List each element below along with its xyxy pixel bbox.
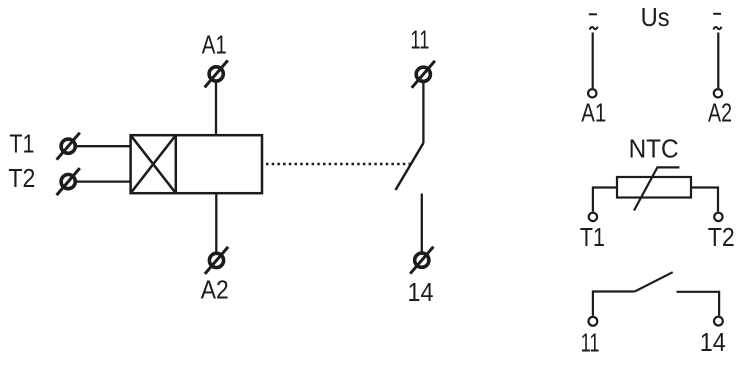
relay coil K1 [131, 135, 262, 193]
wire 14 to output contact [677, 292, 720, 316]
mechanical linkage (dotted) [266, 163, 410, 166]
AC mark over A2 [714, 27, 722, 30]
label 11 (output) [581, 327, 600, 357]
output contact blade [635, 272, 673, 291]
label A2 (coil bottom) [201, 275, 229, 305]
wire T2 to coil [77, 180, 130, 182]
node 11 (output) [589, 317, 598, 326]
DC mark over A1 [589, 13, 597, 15]
svg-text:T1: T1 [580, 222, 605, 252]
label A1 (supply) [581, 97, 606, 127]
svg-text:A2: A2 [708, 97, 732, 127]
wire coil to A2 [215, 193, 217, 252]
thermistor RT body [617, 177, 691, 198]
label A1 (coil top) [202, 29, 227, 59]
svg-text:Us: Us [641, 2, 670, 32]
svg-text:11: 11 [581, 327, 600, 357]
label 14 (contact bottom) [408, 277, 434, 307]
label NTC [629, 134, 679, 164]
wire A1 to coil [215, 83, 217, 137]
svg-text:T2: T2 [8, 163, 35, 193]
label T2 (coil left) [8, 163, 35, 193]
svg-text:14: 14 [700, 327, 726, 357]
node T2 (sensor) [714, 213, 722, 221]
terminal A1 [205, 60, 228, 87]
svg-text:A1: A1 [202, 29, 227, 59]
terminal T1 [57, 133, 80, 160]
node A1 (supply) [588, 89, 596, 97]
thermistor RT stroke mark [634, 167, 679, 210]
terminal A2 [205, 247, 228, 274]
DC mark over A2 [713, 13, 721, 15]
wire T1 to coil [77, 145, 130, 147]
label T2 (sensor) [708, 222, 735, 252]
terminal 14 [410, 247, 433, 274]
wire T1 to thermistor [593, 188, 617, 212]
terminal T2 [57, 168, 80, 195]
svg-text:NTC: NTC [629, 134, 679, 164]
wire 11 to contact [422, 83, 424, 143]
svg-text:T1: T1 [9, 129, 34, 159]
wire contact to 14 [421, 194, 423, 252]
node 14 (output) [714, 317, 723, 326]
wire Us A1 [592, 33, 594, 89]
label T1 (sensor) [580, 222, 605, 252]
wire 11 to output contact [593, 292, 635, 316]
svg-text:11: 11 [410, 24, 429, 54]
svg-text:14: 14 [408, 277, 434, 307]
label A2 (supply) [708, 97, 732, 127]
label 14 (output) [700, 327, 726, 357]
svg-text:A2: A2 [201, 275, 229, 305]
node T1 (sensor) [589, 213, 597, 221]
label 11 (contact top) [410, 24, 429, 54]
label Us [641, 2, 670, 32]
terminal 11 [412, 61, 435, 88]
AC mark over A1 [590, 27, 598, 30]
node A2 (supply) [714, 89, 722, 97]
contact blade NO [396, 143, 424, 190]
wire Us A2 [717, 33, 719, 89]
svg-text:T2: T2 [708, 222, 735, 252]
wire T2 to thermistor [691, 188, 718, 212]
label T1 (coil left) [9, 129, 34, 159]
svg-text:A1: A1 [581, 97, 606, 127]
